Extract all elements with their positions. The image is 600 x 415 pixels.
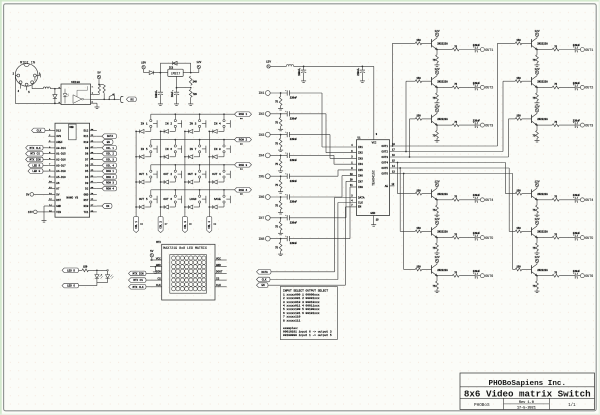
svg-text:DATA: DATA xyxy=(261,271,268,274)
resistor R14 75 xyxy=(275,176,282,189)
svg-text:00100000 input 1 -> output 5: 00100000 input 1 -> output 5 xyxy=(283,333,332,337)
notes table xyxy=(280,287,337,340)
wire (feed OUT1) xyxy=(498,43,516,146)
resistor R3 pullup xyxy=(91,85,101,94)
connector SJ1 xyxy=(120,96,123,102)
wire xyxy=(422,42,432,44)
capacitor C1a 220uF xyxy=(473,44,481,53)
net flag COL 2 xyxy=(158,217,168,233)
svg-text:IN5: IN5 xyxy=(258,174,264,178)
svg-text:IN2: IN2 xyxy=(358,152,363,155)
transistor Q6b 2N2222A xyxy=(532,264,549,276)
wire xyxy=(536,199,538,205)
svg-text:2N2222A: 2N2222A xyxy=(537,43,548,46)
resistor R1ba 150 xyxy=(515,39,521,45)
capacitor C3b 220uF xyxy=(573,120,581,129)
svg-text:D2: D2 xyxy=(85,188,89,191)
ground xyxy=(535,289,540,293)
wire xyxy=(537,275,552,277)
svg-text:3V3: 3V3 xyxy=(56,135,61,138)
connector OUT6 xyxy=(480,274,493,278)
svg-text:220nF: 220nF xyxy=(290,138,298,141)
connector OUT1 xyxy=(580,48,593,52)
svg-text:220uF: 220uF xyxy=(573,120,581,123)
net flag COL 1 xyxy=(134,217,144,233)
wire xyxy=(270,134,287,136)
power 12V xyxy=(534,218,539,226)
svg-text:LED G: LED G xyxy=(32,170,40,173)
svg-text:IN 8: IN 8 xyxy=(214,148,221,151)
wire xyxy=(436,124,438,130)
svg-text:12V: 12V xyxy=(534,256,539,259)
svg-text:220nF: 220nF xyxy=(290,242,298,245)
svg-text:220uF: 220uF xyxy=(357,68,360,76)
transistor Q1a 2N2222A xyxy=(432,38,449,50)
wire (12V rail) xyxy=(270,66,373,68)
transistor Q6a 2N2222A xyxy=(432,264,449,276)
wire xyxy=(79,283,108,286)
svg-text:7 xxxxx110: 7 xxxxx110 xyxy=(283,316,301,319)
svg-text:2N2222A: 2N2222A xyxy=(437,193,448,196)
resistor R1ac 75 xyxy=(452,45,459,51)
pushbutton S6 IN 6 xyxy=(165,140,181,153)
resistor R3ba 150 xyxy=(515,115,521,121)
svg-text:IN8: IN8 xyxy=(358,186,363,189)
net flag ROW 1 xyxy=(97,169,117,174)
diode D24 xyxy=(184,203,200,209)
ground xyxy=(278,251,283,256)
net flag COL 3 xyxy=(182,217,192,233)
wire xyxy=(436,87,438,93)
svg-text:150: 150 xyxy=(416,39,421,42)
power 12V (rail) xyxy=(266,60,271,68)
capacitor C2 xyxy=(155,73,163,106)
wire xyxy=(98,79,104,86)
net flag COL 1 xyxy=(97,146,117,151)
connector IN8 xyxy=(258,236,270,241)
svg-text:OUT1: OUT1 xyxy=(485,48,493,52)
power 5V (opto) xyxy=(97,72,101,79)
svg-text:CS: CS xyxy=(157,277,161,280)
transistor Q2a 2N2222A xyxy=(432,76,449,88)
LED1 xyxy=(95,270,103,282)
resistor R2 xyxy=(189,89,197,97)
wire xyxy=(578,199,581,201)
resistor R4ac 75 xyxy=(452,196,459,202)
svg-text:IN6: IN6 xyxy=(258,195,264,199)
svg-text:EN: EN xyxy=(262,284,266,287)
pushbutton S16 SAVE xyxy=(214,190,230,203)
svg-text:D4: D4 xyxy=(85,176,89,179)
wire (column bus) xyxy=(208,131,210,216)
svg-text:CLK: CLK xyxy=(216,284,221,287)
diode D25 xyxy=(208,203,224,209)
svg-text:OUT5: OUT5 xyxy=(585,236,593,240)
wire (feed OUT2) xyxy=(406,81,415,151)
transistor Q5a 2N2222A xyxy=(432,226,449,238)
ground (nano) xyxy=(42,206,49,222)
svg-text:D13: D13 xyxy=(56,129,61,132)
resistor R5bb xyxy=(533,243,539,251)
svg-text:COL 3: COL 3 xyxy=(184,221,187,229)
wire xyxy=(50,88,61,90)
svg-text:VIN: VIN xyxy=(56,211,61,214)
connector OUT3 xyxy=(580,123,593,127)
svg-text:D3: D3 xyxy=(85,182,89,185)
capacitor C16 220nF xyxy=(285,215,297,225)
capacitor C6b 220uF xyxy=(573,270,581,279)
wire xyxy=(559,49,575,51)
svg-text:2N2222A: 2N2222A xyxy=(537,269,548,272)
pin VCC xyxy=(374,66,378,139)
svg-text:12V: 12V xyxy=(434,68,439,71)
power 12V xyxy=(534,106,539,114)
net flag ROW 4 xyxy=(235,188,252,196)
svg-text:LED R: LED R xyxy=(32,164,40,167)
svg-text:MTX CS: MTX CS xyxy=(30,153,40,156)
svg-text:D7: D7 xyxy=(85,159,89,162)
resistor R2ba 150 xyxy=(515,77,521,83)
pushbutton S8 IN 8 xyxy=(214,140,230,153)
power 12V xyxy=(434,256,439,264)
power 12V xyxy=(534,180,539,188)
svg-text:12V: 12V xyxy=(534,30,539,33)
power 5V (mtx) xyxy=(150,250,154,261)
pushbutton S3 IN 3 xyxy=(189,114,205,127)
wire xyxy=(522,118,532,120)
wire EN xyxy=(268,204,357,285)
resistor R6ba 150 xyxy=(515,265,521,271)
ground xyxy=(435,251,440,255)
net flag MTX CLK (mtx) xyxy=(129,285,151,290)
wire (row bus) xyxy=(151,164,235,166)
svg-text:RST: RST xyxy=(56,199,61,202)
wire xyxy=(578,237,581,239)
resistor R3aa 150 xyxy=(415,115,421,121)
net flag EN xyxy=(97,140,113,145)
wire (IC1 OUT1) xyxy=(390,143,498,147)
ground xyxy=(278,168,283,173)
svg-text:IN3: IN3 xyxy=(258,133,264,137)
svg-text:150: 150 xyxy=(516,227,521,230)
svg-text:VCC: VCC xyxy=(372,142,377,145)
svg-text:TEA6415C: TEA6415C xyxy=(372,170,376,186)
svg-text:INPUT SELECT OUTPUT SELECT: INPUT SELECT OUTPUT SELECT xyxy=(283,290,328,293)
svg-text:220uF: 220uF xyxy=(473,194,481,197)
resistor R11 75 xyxy=(275,114,282,127)
svg-text:150: 150 xyxy=(516,115,521,118)
net flag LED R (led) xyxy=(62,268,79,273)
wire xyxy=(270,155,287,157)
wire (row bus) xyxy=(151,113,235,115)
svg-text:CLK: CLK xyxy=(358,201,363,204)
svg-text:220nF: 220nF xyxy=(290,221,298,224)
title block xyxy=(460,373,595,410)
svg-text:MTX: MTX xyxy=(156,241,161,244)
svg-text:150: 150 xyxy=(416,115,421,118)
pushbutton S11 OUT 3 xyxy=(188,165,206,178)
svg-text:A1-D15: A1-D15 xyxy=(56,153,66,156)
svg-text:OUT 5: OUT 5 xyxy=(139,198,148,201)
regulator IC3 LM317 xyxy=(168,66,183,76)
connector IN6 xyxy=(258,195,270,200)
svg-text:OUT3: OUT3 xyxy=(585,123,593,127)
transistor Q4a 2N2222A xyxy=(432,188,449,200)
resistor R4aa 150 xyxy=(415,189,421,195)
svg-text:examples:: examples: xyxy=(283,326,299,330)
svg-text:10uF: 10uF xyxy=(171,91,174,97)
resistor R2ab xyxy=(433,93,439,101)
svg-text:A2-D16: A2-D16 xyxy=(56,159,66,162)
power 12V xyxy=(434,68,439,76)
pushbutton S4 IN 4 xyxy=(214,114,230,127)
svg-text:5V: 5V xyxy=(150,250,154,253)
svg-text:3 xxxxx010 3 00010xxx: 3 xxxxx010 3 00010xxx xyxy=(283,301,320,304)
wire xyxy=(422,230,432,232)
connector OUT1 xyxy=(480,48,493,52)
svg-text:100nF: 100nF xyxy=(155,90,158,98)
capacitor C6a 220uF xyxy=(473,270,481,279)
svg-text:OUT2: OUT2 xyxy=(585,86,593,90)
svg-text:OUT 4: OUT 4 xyxy=(212,173,221,176)
connector IN1 xyxy=(258,91,270,96)
diode D15 xyxy=(160,153,176,159)
resistor R5ab xyxy=(433,243,439,251)
svg-text:MTX CLK: MTX CLK xyxy=(30,147,41,150)
ground xyxy=(278,189,283,194)
svg-text:DATA: DATA xyxy=(107,135,114,138)
svg-text:12V: 12V xyxy=(434,30,439,33)
svg-text:220nF: 220nF xyxy=(290,201,298,204)
svg-text:5 xxxxx100 5 00100xxx: 5 xxxxx100 5 00100xxx xyxy=(283,308,320,311)
power 12V xyxy=(434,30,439,38)
capacitor C5a 220uF xyxy=(473,232,481,241)
wire xyxy=(478,199,481,201)
svg-text:MAX7219 8x8 LED MATRIX: MAX7219 8x8 LED MATRIX xyxy=(163,246,207,250)
wire xyxy=(478,237,481,239)
resistor R4 pullup xyxy=(103,85,105,99)
diode D20 xyxy=(184,178,200,184)
svg-text:2N2222A: 2N2222A xyxy=(537,81,548,84)
net flag ROW 4 xyxy=(97,186,117,191)
net flag COL 3 xyxy=(97,157,117,162)
svg-text:12V: 12V xyxy=(434,180,439,183)
ground xyxy=(278,147,283,152)
svg-text:AREF: AREF xyxy=(56,141,63,144)
svg-text:IN6: IN6 xyxy=(358,175,363,178)
resistor R5aa 150 xyxy=(415,227,421,233)
svg-text:LED R: LED R xyxy=(67,269,75,272)
net flag COL 4 xyxy=(97,163,117,168)
ground xyxy=(435,63,440,67)
wire xyxy=(270,113,287,115)
wire (feed OUT3) xyxy=(410,119,416,157)
wire out of opto xyxy=(91,98,120,100)
microcontroller U2 Arduino Nano xyxy=(48,123,97,217)
svg-text:RX0: RX0 xyxy=(84,205,89,208)
wire xyxy=(522,193,532,195)
svg-text:A6: A6 xyxy=(56,182,60,185)
wire xyxy=(537,49,552,51)
svg-text:ROW 1: ROW 1 xyxy=(239,113,248,116)
svg-text:ROW 2: ROW 2 xyxy=(106,176,114,179)
svg-text:OUT 6: OUT 6 xyxy=(163,198,172,201)
wire (to IC) xyxy=(289,93,356,147)
net flag ROW 2 xyxy=(235,137,252,145)
diode D8 xyxy=(109,94,114,100)
wire xyxy=(459,237,475,239)
wire xyxy=(437,124,452,126)
svg-text:150: 150 xyxy=(416,265,421,268)
svg-text:IN 6: IN 6 xyxy=(165,148,172,151)
svg-text:IN 7: IN 7 xyxy=(189,148,196,151)
pushbutton S10 OUT 2 xyxy=(163,165,181,178)
svg-text:IN3: IN3 xyxy=(358,157,363,160)
wire (IC1 OUT5) xyxy=(390,165,510,169)
svg-text:GND: GND xyxy=(156,264,161,267)
svg-text:A5-D19: A5-D19 xyxy=(56,176,66,179)
svg-text:150: 150 xyxy=(516,265,521,268)
resistor R2bb xyxy=(533,93,539,101)
wire xyxy=(437,49,452,51)
transistor Q1b 2N2222A xyxy=(532,38,549,50)
svg-text:CLK: CLK xyxy=(37,129,42,132)
svg-text:4 xxxxx011 4 00011xxx: 4 xxxxx011 4 00011xxx xyxy=(283,305,320,308)
svg-text:220uF: 220uF xyxy=(573,232,581,235)
wire xyxy=(459,275,475,277)
wire xyxy=(522,230,532,232)
resistor R1ab xyxy=(433,55,439,63)
wire xyxy=(478,275,481,277)
wire (feed OUT5) xyxy=(400,168,415,231)
resistor R5ac 75 xyxy=(452,233,459,239)
svg-text:OUT1: OUT1 xyxy=(382,145,389,148)
svg-text:IN1: IN1 xyxy=(358,146,363,149)
svg-text:2N2222A: 2N2222A xyxy=(537,231,548,234)
resistor R2bc 75 xyxy=(552,83,559,89)
svg-text:IC3: IC3 xyxy=(169,66,174,69)
svg-text:MTX CLK: MTX CLK xyxy=(133,286,144,289)
net flag LED G (led) xyxy=(62,283,79,288)
svg-text:IN4: IN4 xyxy=(358,163,363,166)
svg-text:EN: EN xyxy=(107,141,111,144)
pushbutton S1 IN 1 xyxy=(141,114,157,127)
wire (row bus) xyxy=(151,139,235,141)
LED2 xyxy=(106,271,114,282)
resistor R13 75 xyxy=(275,155,282,168)
connector OUT6 xyxy=(580,274,593,278)
wire (to IC) xyxy=(289,179,356,218)
svg-text:OUT6: OUT6 xyxy=(585,274,593,278)
capacitor C4a 220uF xyxy=(473,194,481,203)
diode D18 xyxy=(135,178,151,184)
svg-text:OUT4: OUT4 xyxy=(382,162,389,165)
ground xyxy=(535,101,540,105)
svg-text:IN1: IN1 xyxy=(258,91,264,95)
svg-text:OUT2: OUT2 xyxy=(382,151,389,154)
ground xyxy=(435,101,440,105)
wire xyxy=(35,74,40,81)
ground xyxy=(278,106,283,111)
svg-text:OUT1: OUT1 xyxy=(585,48,593,52)
ground xyxy=(435,138,440,142)
svg-text:2 xxxxx001 2 00001xxx: 2 xxxxx001 2 00001xxx xyxy=(283,297,320,300)
connector OUT2 xyxy=(580,85,593,89)
svg-text:COL 4: COL 4 xyxy=(208,221,211,229)
wire xyxy=(144,69,150,73)
svg-text:IN5: IN5 xyxy=(358,169,363,172)
wire (row bus) xyxy=(151,189,235,191)
wire xyxy=(437,199,452,201)
wire (top loop) xyxy=(160,63,190,72)
svg-text:IN 5: IN 5 xyxy=(141,148,148,151)
resistor R5ba 150 xyxy=(515,227,521,233)
connector IN7 xyxy=(258,215,270,220)
power 12V xyxy=(434,106,439,114)
wire xyxy=(437,86,452,88)
svg-text:12V: 12V xyxy=(266,60,271,63)
resistor R5bc 75 xyxy=(552,233,559,239)
ground xyxy=(535,138,540,142)
net flag MTX CS (mtx) xyxy=(129,278,151,283)
pushbutton S2 IN 2 xyxy=(165,114,181,127)
LED matrix MTX MAX7219 xyxy=(156,241,215,300)
ground xyxy=(278,210,283,215)
svg-text:ROW 3: ROW 3 xyxy=(239,164,248,167)
connector IN2 xyxy=(258,111,270,116)
svg-text:00010101 input 6 -> output 3: 00010101 input 6 -> output 3 xyxy=(283,330,332,334)
wire xyxy=(537,237,552,239)
wire xyxy=(437,237,452,239)
svg-text:CLK: CLK xyxy=(262,279,267,282)
wire (IC1 OUT3) xyxy=(390,154,509,158)
svg-text:2N2222A: 2N2222A xyxy=(437,231,448,234)
svg-text:D5: D5 xyxy=(85,170,89,173)
wire xyxy=(559,237,575,239)
svg-text:100uF: 100uF xyxy=(298,68,301,76)
net flag DATA (bus) xyxy=(257,270,272,275)
net flag COL 4 xyxy=(207,217,217,233)
power 12V xyxy=(534,68,539,76)
wire (IC1 OUT4) xyxy=(390,160,506,164)
connector OUT3 xyxy=(480,123,493,127)
net flag COL 2 xyxy=(97,151,117,156)
net flag MTX CLK xyxy=(26,146,49,151)
svg-text:OUT 1: OUT 1 xyxy=(139,173,148,176)
diode D7 xyxy=(53,89,57,105)
net flag ROW 3 xyxy=(235,163,252,171)
ground xyxy=(278,126,283,131)
svg-text:OUT6: OUT6 xyxy=(382,173,389,176)
resistor R1bb xyxy=(533,55,539,63)
svg-text:12V: 12V xyxy=(534,106,539,109)
capacitor C12 220nF xyxy=(285,132,297,142)
net flag EN (bus) xyxy=(257,283,269,288)
svg-text:CS: CS xyxy=(216,277,220,280)
capacitor C4b 220uF xyxy=(573,194,581,203)
svg-text:EN: EN xyxy=(358,206,362,209)
diode D13 xyxy=(208,128,224,134)
svg-text:RX: RX xyxy=(106,205,110,208)
wire xyxy=(270,175,287,177)
wire (IC1 OUT6) xyxy=(390,171,513,175)
svg-text:1/1: 1/1 xyxy=(568,403,576,408)
connector IN3 xyxy=(258,132,270,137)
capacitor C11 220nF xyxy=(285,111,297,121)
svg-text:220uF: 220uF xyxy=(473,44,481,47)
svg-text:COL 1: COL 1 xyxy=(106,147,114,150)
wire (column bus) xyxy=(184,131,186,216)
